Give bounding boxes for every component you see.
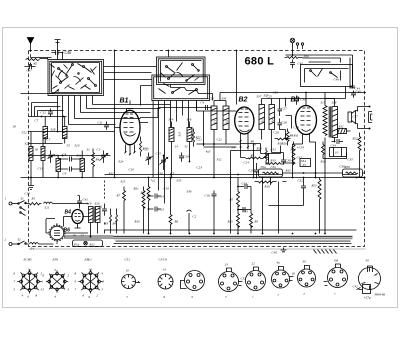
svg-text:C2: C2 (193, 215, 197, 219)
resistor R24 (322, 142, 325, 159)
capacitor C29 (254, 167, 259, 175)
capacitor C12 (48, 109, 53, 117)
choke S22b (30, 243, 43, 245)
svg-text:C26: C26 (274, 131, 280, 135)
trimmer C17 (146, 153, 153, 165)
socket C51 (122, 275, 140, 289)
svg-text:s: s (278, 293, 280, 297)
svg-text:a: a (192, 295, 194, 299)
socket B9 base (324, 264, 348, 288)
svg-text:C11: C11 (98, 121, 103, 125)
svg-text:C15: C15 (156, 152, 162, 156)
tube B4 (72, 210, 83, 229)
small network C1 R3 R4 left (102, 204, 118, 234)
svg-text:C29: C29 (249, 169, 255, 173)
svg-text:ECH3: ECH3 (23, 258, 32, 262)
resistor R40 (92, 149, 95, 178)
tone network box R19 (330, 148, 347, 157)
mains terminal upper (9, 202, 18, 205)
oscillator coil S14 (169, 122, 174, 178)
svg-text:C24: C24 (244, 161, 250, 165)
power transformer S19 S20 (89, 207, 101, 223)
svg-text:S14: S14 (169, 118, 174, 122)
svg-text:14: 14 (163, 268, 167, 272)
svg-text:C9: C9 (63, 172, 67, 176)
capacitor C27 (278, 105, 283, 116)
capacitor C18 (179, 153, 184, 162)
svg-text:g: g (89, 295, 91, 299)
resistor R2 (26, 59, 48, 67)
wire B3 top (305, 93, 307, 106)
socket B10 base (357, 266, 381, 294)
resistor R20 (123, 187, 126, 234)
svg-text:S31: S31 (77, 154, 82, 158)
choke S21 (44, 202, 57, 204)
resistor R9 (246, 157, 264, 159)
svg-text:S21: S21 (45, 206, 50, 210)
svg-text:8: 8 (36, 294, 38, 298)
capacitor C44 (350, 83, 355, 88)
long vertical wire node (114, 51, 116, 178)
antenna symbol (27, 38, 33, 58)
svg-text:C10: C10 (129, 168, 135, 172)
svg-text:4a: 4a (277, 261, 281, 265)
svg-text:C23: C23 (197, 166, 203, 170)
svg-text:17: 17 (81, 234, 85, 238)
wire pot taps down (214, 177, 287, 234)
tube B3 (291, 97, 317, 145)
svg-text:C49: C49 (334, 78, 340, 82)
svg-text:4: 4 (22, 294, 24, 298)
svg-text:i: i (253, 295, 254, 299)
svg-text:R12: R12 (108, 172, 115, 176)
wire antenna feeds (31, 51, 63, 60)
capacitor C30 (281, 157, 286, 165)
svg-text:9: 9 (75, 280, 77, 284)
svg-text:3: 3 (68, 288, 70, 292)
svg-text:10: 10 (126, 269, 130, 273)
svg-text:C1: C1 (97, 148, 101, 152)
svg-text:S16: S16 (187, 118, 192, 122)
resistor R3b (250, 210, 253, 234)
svg-text:R3: R3 (254, 220, 259, 224)
svg-text:C14: C14 (159, 195, 165, 199)
resistor R15 cathode (140, 137, 142, 157)
svg-text:+C33: +C33 (297, 146, 305, 150)
junction dots left (30, 177, 32, 179)
svg-text:R10: R10 (134, 220, 141, 224)
svg-text:B1: B1 (120, 98, 129, 105)
dial cord dashes (104, 223, 106, 234)
resistor R27 (193, 129, 195, 147)
capacitor C16 (212, 191, 217, 199)
svg-text:31: 31 (185, 145, 189, 149)
capacitor C11 (104, 122, 109, 130)
svg-text:S33: S33 (222, 97, 227, 101)
svg-text:g: g (164, 295, 166, 299)
svg-text:S32: S32 (339, 125, 344, 129)
wire det chain (241, 136, 293, 178)
svg-text:C18: C18 (184, 155, 190, 159)
svg-text:S22: S22 (25, 142, 30, 146)
svg-text:S1: S1 (21, 197, 25, 201)
output transformer S17 S18 (323, 94, 338, 178)
dial lamp P50 (290, 38, 295, 50)
capacitor C32 (301, 182, 306, 192)
svg-text:R9: R9 (250, 154, 255, 158)
ground terminal (55, 40, 61, 51)
wire B1 grid cap (115, 101, 149, 128)
socket B7 base (272, 266, 294, 288)
wire box1-box2 link (104, 67, 157, 73)
dial cord dashed (104, 181, 106, 201)
svg-text:7c2: 7c2 (151, 179, 156, 183)
svg-text:P2a: P2a (260, 165, 267, 169)
coil S30 (56, 156, 61, 178)
svg-text:R2b: R2b (281, 142, 288, 146)
svg-text:16: 16 (73, 234, 77, 238)
svg-text:2: 2 (68, 274, 70, 278)
svg-text:h: h (28, 295, 30, 299)
svg-text:2: 2 (97, 294, 99, 298)
svg-text:31: 31 (87, 148, 91, 152)
svg-text:1: 1 (5, 197, 7, 201)
wire speaker connections (358, 107, 370, 129)
wires coil box 1 outputs (58, 96, 93, 132)
wire det extra (280, 99, 292, 129)
capacitor C39 (294, 96, 299, 105)
svg-text:33: 33 (303, 163, 307, 167)
svg-text:C27: C27 (282, 107, 288, 111)
svg-text:8: 8 (75, 272, 77, 276)
capacitor C34m (237, 184, 251, 189)
svg-text:1M: 1M (334, 259, 339, 263)
svg-text:5: 5 (102, 288, 104, 292)
svg-text:13: 13 (225, 263, 229, 267)
wire dotted rail (29, 116, 67, 118)
svg-text:C33: C33 (243, 210, 249, 214)
svg-text:53: 53 (67, 144, 71, 148)
svg-text:7: 7 (75, 288, 77, 292)
hum coil S19 (338, 129, 351, 134)
resistor R16 vertical right (318, 178, 321, 204)
capacitor C45 (290, 60, 295, 69)
svg-text:R10: R10 (256, 147, 263, 151)
switch S2 (18, 241, 29, 245)
svg-text:R15: R15 (285, 169, 292, 173)
lamp box P1a (73, 240, 103, 247)
terminal posts (296, 43, 303, 51)
svg-text:C41: C41 (83, 198, 89, 202)
coil S23 (41, 132, 45, 178)
wires right mid (280, 87, 360, 179)
capacitor C47 (25, 64, 36, 69)
svg-text:30: 30 (303, 260, 307, 264)
svg-text:7: 7 (14, 280, 16, 284)
tube B2 (235, 97, 254, 150)
svg-text:C35: C35 (348, 158, 354, 162)
svg-text:16: 16 (292, 272, 296, 276)
svg-text:352: 352 (217, 158, 222, 162)
junctions osc (171, 177, 173, 179)
svg-text:50: 50 (366, 259, 370, 263)
capacitor C8 (58, 157, 81, 162)
potentiometer box P6 (343, 169, 363, 177)
capacitor C2g (187, 210, 192, 234)
switch S3 contacts (20, 207, 26, 216)
IF1 coil S12 (223, 101, 229, 144)
wire detector mid rails (197, 101, 261, 178)
resistor R12t tall (292, 142, 295, 166)
svg-text:4a5: 4a5 (206, 150, 211, 154)
svg-text:C21: C21 (197, 138, 203, 142)
svg-text:C32: C32 (298, 179, 304, 183)
svg-text:R13: R13 (270, 159, 277, 163)
svg-text:P9: P9 (252, 143, 257, 147)
socket EF9 (46, 270, 68, 292)
resistor R8 (286, 129, 289, 146)
svg-text:B2: B2 (239, 97, 248, 104)
coil S22 antenna (29, 132, 33, 178)
capacitor C33 (237, 207, 245, 212)
capacitor C28 (278, 119, 283, 130)
capacitor C9 (58, 167, 81, 172)
svg-text:6: 6 (83, 294, 85, 298)
resistor R10b below (255, 181, 277, 183)
svg-text:EBL1: EBL1 (84, 258, 93, 262)
svg-text:S37: S37 (257, 95, 262, 99)
svg-text:680 L: 680 L (245, 56, 275, 68)
socket EBL1 (78, 270, 102, 294)
fuse R1 (29, 203, 42, 206)
resistor R5 (237, 178, 240, 210)
svg-text:S4: S4 (31, 247, 35, 251)
svg-text:b: b (55, 295, 57, 299)
svg-text:C51: C51 (125, 258, 131, 262)
wire box2 to left (104, 80, 152, 106)
mains terminal lower (9, 243, 18, 246)
svg-text:S24: S24 (119, 160, 124, 164)
svg-text:R4: R4 (112, 222, 117, 226)
wire top bus to right corner (286, 55, 353, 89)
svg-text:10: 10 (335, 151, 339, 155)
svg-text:R12: R12 (89, 243, 96, 247)
gray chassis bus (64, 230, 357, 244)
svg-text:R4: R4 (95, 158, 100, 162)
svg-text:C19: C19 (164, 187, 170, 191)
wire top right rails (306, 93, 366, 94)
resistor R17 (147, 178, 150, 234)
external speaker jack (369, 112, 373, 123)
capacitor C41 (77, 198, 82, 206)
svg-text:C7: C7 (35, 119, 39, 123)
svg-text:z: z (303, 292, 306, 296)
svg-text:18: 18 (13, 125, 17, 129)
resistor R11 (275, 138, 291, 140)
power wires (43, 196, 98, 245)
svg-text:r: r (335, 292, 337, 296)
wire aerial rail into box (21, 90, 59, 94)
svg-text:C12: C12 (41, 111, 47, 115)
long vertical feed (236, 51, 238, 105)
left rails (21, 132, 366, 178)
svg-text:S13: S13 (178, 131, 182, 136)
svg-text:P9: P9 (231, 146, 236, 150)
capacitor C34b (332, 139, 344, 144)
resistor R22 (358, 133, 361, 159)
svg-text:18: 18 (35, 148, 39, 152)
svg-text:C42: C42 (353, 285, 359, 289)
socket B5 base (219, 268, 243, 292)
socket B8 base (298, 265, 316, 287)
svg-text:R22: R22 (352, 137, 359, 141)
svg-text:C34: C34 (331, 144, 337, 148)
svg-text:C22: C22 (217, 138, 223, 142)
svg-text:6: 6 (43, 274, 45, 278)
svg-text:P50: P50 (303, 55, 310, 59)
tube B1 (120, 98, 141, 156)
svg-text:S10: S10 (75, 144, 80, 148)
svg-text:S16: S16 (271, 117, 275, 122)
svg-text:C13: C13 (159, 208, 165, 212)
svg-text:S20: S20 (95, 202, 100, 206)
svg-text:S2: S2 (18, 238, 22, 242)
variable capacitor C1 (100, 151, 108, 163)
svg-text:v: v (127, 295, 129, 299)
svg-text:B4: B4 (65, 210, 72, 216)
svg-text:S12: S12 (225, 119, 229, 124)
IF2 coil S38 (269, 99, 275, 136)
capacitor C40 top (351, 91, 356, 98)
trimmer C5 (48, 151, 55, 163)
potentiometer box P2a (259, 169, 283, 177)
svg-text:5: 5 (43, 288, 45, 292)
chassis dashed border (29, 248, 366, 250)
svg-text:S11: S11 (213, 120, 217, 125)
socket B4 base (181, 271, 205, 291)
resistor R30 lamp feed (285, 51, 303, 59)
coil S28 left (43, 117, 48, 144)
svg-text:C46: C46 (65, 50, 72, 55)
svg-text:C30: C30 (286, 159, 292, 163)
svg-text:C13: C13 (25, 192, 31, 196)
svg-text:R6: R6 (174, 220, 179, 224)
svg-text:S15: S15 (261, 117, 265, 122)
svg-text:C47: C47 (27, 69, 33, 73)
coil S31 (80, 151, 85, 178)
capacitor C4 (206, 105, 208, 110)
svg-text:C13: C13 (38, 167, 44, 171)
volume pot P2 (263, 148, 269, 164)
svg-text:C3: C3 (171, 172, 175, 176)
wire pot chain (283, 172, 366, 174)
svg-text:3: 3 (103, 280, 105, 284)
svg-text:P6944B: P6944B (374, 293, 385, 297)
svg-text:R21: R21 (133, 187, 140, 191)
junction row y177 (148, 177, 150, 179)
svg-text:C20: C20 (209, 97, 215, 101)
capacitor C13b (148, 207, 161, 212)
svg-text:+27g: +27g (364, 296, 371, 300)
rectifier B6 (49, 223, 65, 243)
resistor R6 (169, 178, 172, 234)
svg-text:C4: C4 (201, 101, 205, 105)
svg-text:1a: 1a (28, 268, 32, 272)
junction dots bus (148, 233, 326, 235)
IF1 coil S11 (211, 101, 217, 178)
svg-text:R5: R5 (229, 198, 234, 202)
svg-text:S36: S36 (187, 190, 192, 194)
svg-text:R10: R10 (264, 185, 271, 189)
svg-text:C40: C40 (272, 251, 278, 255)
bandswitch coil box 2 (152, 57, 210, 101)
oscillator coil S16 (187, 122, 192, 162)
switch S1 (18, 201, 29, 205)
wire avc links (238, 144, 251, 210)
IF2 coil S37 (259, 99, 265, 140)
svg-text:C17: C17 (144, 148, 150, 152)
svg-text:C32: C32 (271, 165, 277, 169)
wire elbow bundle (32, 103, 64, 117)
svg-text:5: 5 (14, 288, 16, 292)
svg-text:+2: +2 (89, 268, 93, 272)
svg-text:R2: R2 (33, 62, 38, 66)
svg-text:530: 530 (158, 172, 163, 176)
wire IF2 outputs (262, 99, 286, 140)
svg-text:C5/C9: C5/C9 (159, 258, 168, 262)
svg-text:1: 1 (42, 280, 44, 284)
socket B6 base (246, 267, 266, 291)
wires right bottom verticals (269, 178, 366, 234)
svg-text:S17: S17 (321, 101, 326, 105)
svg-text:R11: R11 (293, 134, 299, 138)
svg-text:C37: C37 (353, 115, 359, 119)
svg-text:S18: S18 (332, 101, 337, 105)
svg-text:R23: R23 (311, 184, 318, 188)
svg-text:R25: R25 (227, 220, 234, 224)
svg-text:EF9: EF9 (52, 258, 59, 262)
socket ECH3 (17, 270, 41, 294)
bus hatch right (314, 250, 337, 254)
svg-text:S25: S25 (121, 180, 126, 184)
svg-text:C28: C28 (282, 121, 288, 125)
wires detector (241, 144, 281, 178)
svg-text:C8: C8 (63, 153, 67, 157)
bandswitch coil box 1 (48, 60, 104, 96)
wire grid to C4 (140, 108, 212, 118)
svg-text:B3: B3 (291, 97, 300, 104)
svg-text:R18: R18 (320, 160, 327, 164)
tone switch box top right (301, 65, 353, 87)
trimmer box S34 (300, 159, 311, 167)
wire top mid step (171, 85, 213, 101)
resistor R13 (266, 163, 284, 165)
svg-text:S30: S30 (54, 154, 59, 158)
svg-text:R1: R1 (31, 197, 36, 201)
wire stub box2 top (168, 51, 170, 58)
svg-text:S28: S28 (51, 128, 56, 132)
svg-text:S35: S35 (177, 179, 182, 183)
capacitor C46 (52, 50, 64, 55)
svg-text:C34: C34 (242, 182, 248, 186)
svg-text:2: 2 (5, 238, 7, 242)
svg-text:14: 14 (175, 145, 179, 149)
svg-text:4: 4 (102, 272, 104, 276)
socket C5/C9 (158, 274, 173, 289)
capacitor C14 (148, 194, 161, 199)
wire IF1 tops (214, 93, 306, 101)
svg-text:a: a (55, 268, 57, 272)
